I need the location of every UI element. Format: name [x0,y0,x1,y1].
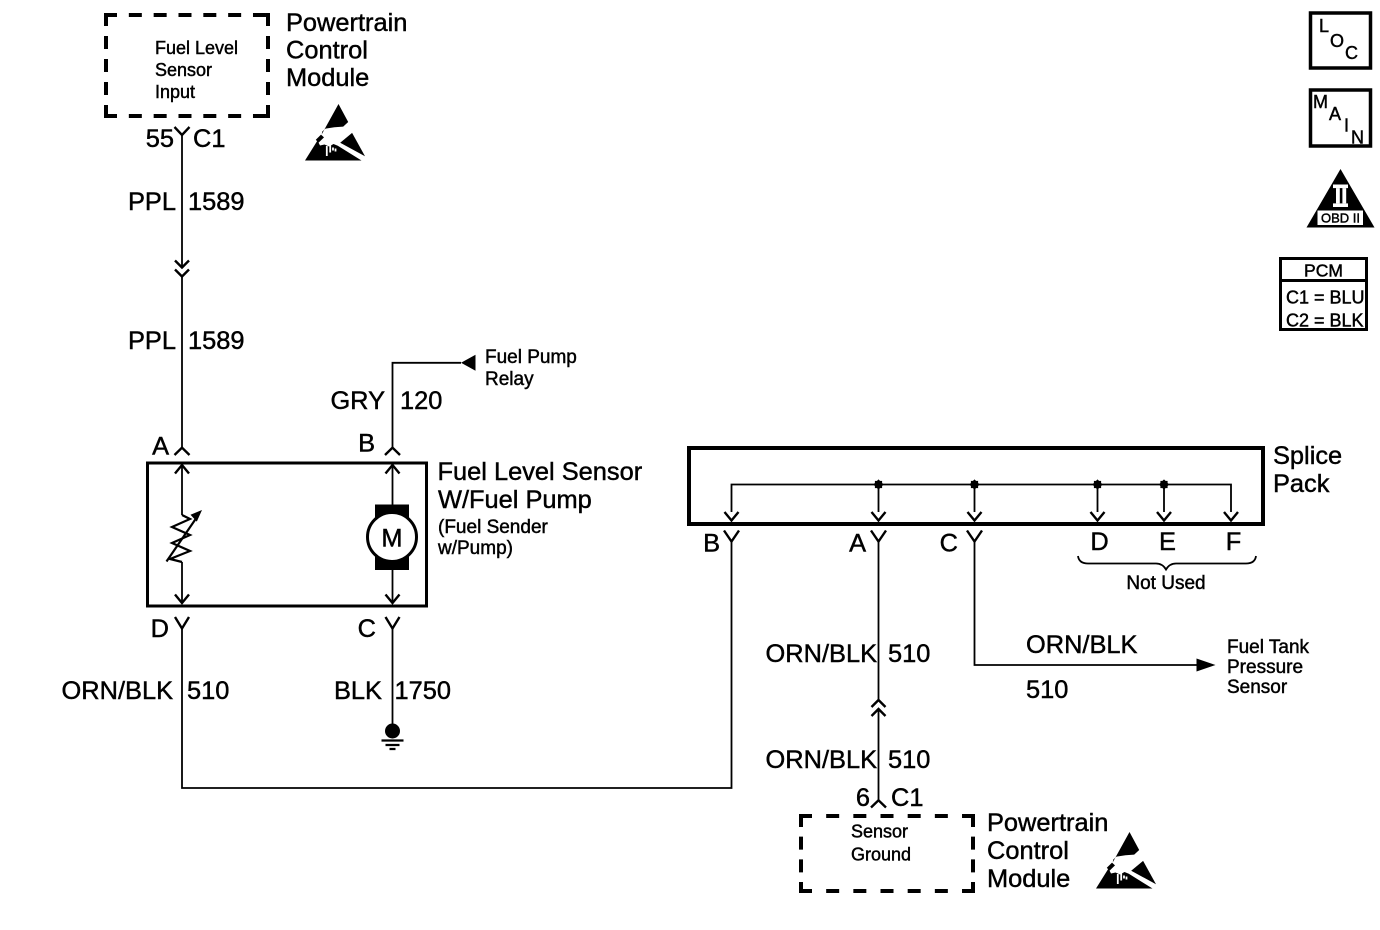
svg-text:B: B [703,530,720,558]
label: Not Used [1126,573,1205,594]
bus terminal arrow D [1091,512,1105,521]
inline break symbol on PPL wire [175,261,189,277]
internal arrow up at pin A [175,465,189,515]
svg-text:D: D [151,615,169,643]
value label ORN/BLK 510 (A lower) [766,746,931,774]
connector symbol splice A [871,531,886,542]
svg-text:ORN/BLK: ORN/BLK [766,640,878,668]
arrow to Fuel Tank Pressure Sensor [1197,659,1216,672]
connector symbol at pin A [175,448,190,455]
svg-text:Fuel Level Sensor: Fuel Level Sensor [438,458,643,486]
svg-text:D: D [1090,528,1108,556]
internal arrow down to pin D [175,562,189,603]
label: Fuel Level Sensor W/Fuel Pump [437,458,643,559]
wire ORN/BLK 510 splice C to fuel tank pressure sensor [975,542,1198,666]
value label PPL 1589 (lower) [128,327,244,355]
svg-text:BLK: BLK [334,677,382,705]
svg-text:I: I [1344,116,1349,136]
svg-text:F: F [1226,528,1242,556]
svg-text:Module: Module [286,64,369,92]
svg-text:1589: 1589 [188,188,244,216]
value label ORN/BLK (C drop) [1026,631,1138,659]
svg-text:55: 55 [146,125,174,153]
wire ORN/BLK 510 from D to splice pack B [182,542,732,789]
ground symbol G401 [382,724,404,750]
junction at splice E [1159,479,1169,489]
svg-text:Pressure: Pressure [1227,657,1303,678]
svg-text:C: C [940,530,958,558]
node C label [358,615,376,643]
fuel pump motor M1 [368,505,417,571]
svg-text:PCM: PCM [1304,261,1343,281]
connector symbol at PCM 55 C1 [175,127,190,135]
MAIN takeout symbol [1311,90,1371,148]
splice pin E label [1159,528,1176,556]
value label PPL 1589 (upper) [128,188,244,216]
svg-text:510: 510 [187,677,229,705]
svg-text:M: M [381,525,402,553]
svg-text:Control: Control [987,837,1069,865]
node D label [151,615,169,643]
connector symbol at pin D [175,617,189,629]
svg-text:Sensor: Sensor [1227,677,1288,698]
svg-text:C: C [1345,43,1358,63]
node A label [152,433,169,461]
Splice Pack box [689,448,1263,524]
svg-text:PPL: PPL [128,188,176,216]
svg-text:Control: Control [286,37,368,65]
wire PPL 1589 lower segment [181,277,183,448]
bus terminal arrow F [1224,512,1238,521]
internal arrow up at pin B [386,465,400,505]
svg-text:Powertrain: Powertrain [286,9,407,37]
value label BLK 1750 [334,677,451,705]
junction at splice D [1092,479,1102,489]
connector symbol at pin B [385,448,400,455]
svg-text:6: 6 [856,784,870,812]
bus terminal arrow C [968,512,982,521]
label: Splice Pack [1273,442,1342,498]
svg-text:Not Used: Not Used [1126,573,1205,594]
svg-text:M: M [1313,92,1328,112]
label: Fuel Tank Pressure Sensor [1227,637,1310,698]
svg-text:A: A [849,530,866,558]
svg-text:E: E [1159,528,1176,556]
svg-text:OBD II: OBD II [1321,211,1360,226]
ESD symbol (top) [305,104,365,161]
inline break symbol on A wire [872,700,886,716]
OBD II symbol [1307,169,1375,228]
svg-text:Module: Module [987,865,1070,893]
svg-text:Relay: Relay [485,369,534,390]
value label ORN/BLK 510 (left) [62,677,230,705]
svg-text:C2 = BLK: C2 = BLK [1286,311,1364,331]
svg-text:N: N [1351,128,1364,148]
wire BLK 1750 from C to ground [392,629,394,725]
connector symbol at pin C [386,617,400,629]
bus terminal arrow A [872,512,886,521]
PCM connector block: Fuel Level Sensor Input (dashed box) [104,13,270,118]
splice pin D label [1090,528,1108,556]
svg-text:C: C [358,615,376,643]
label: Powertrain Control Module (bottom) [987,809,1108,893]
variable resistor (fuel level sender) [167,510,203,562]
connector symbol splice C [967,531,982,542]
connector symbol at PCM 6 C1 [871,800,886,807]
internal arrow down to pin C [386,570,400,603]
junction at splice A [873,479,883,489]
svg-text:ORN/BLK: ORN/BLK [62,677,174,705]
ESD symbol (bottom) [1096,832,1156,889]
svg-text:Fuel Tank: Fuel Tank [1227,637,1310,658]
svg-text:Powertrain: Powertrain [987,809,1108,837]
value label 510 (C drop) [1026,676,1068,704]
svg-text:1750: 1750 [395,677,451,705]
svg-text:Pack: Pack [1273,470,1330,498]
svg-text:Sensor: Sensor [851,822,908,842]
svg-text:Fuel Level: Fuel Level [155,38,238,58]
wire GRY 120 to fuel pump relay [393,363,462,447]
not-used brace [1078,556,1256,570]
value label GRY 120 [330,387,442,415]
pin 55 / connector C1 labels [146,125,226,153]
svg-text:ORN/BLK: ORN/BLK [1026,631,1138,659]
svg-text:120: 120 [400,387,442,415]
svg-text:Fuel Pump: Fuel Pump [485,347,577,368]
wire PPL 1589 upper segment [181,135,183,267]
PCM connector block: Sensor Ground (dashed box) [799,814,975,893]
svg-text:C1: C1 [891,784,923,812]
svg-text:W/Fuel Pump: W/Fuel Pump [438,486,592,514]
LOC takeout symbol [1311,13,1371,68]
wire ORN/BLK 510 (A lower) [878,709,880,800]
label: Fuel Pump Relay [485,347,577,390]
wire ORN/BLK 510 splice A to PCM (upper) [878,542,880,701]
svg-text:C1 = BLU: C1 = BLU [1286,288,1365,308]
svg-text:w/Pump): w/Pump) [437,538,513,559]
label: Powertrain Control Module (top) [286,9,407,92]
svg-text:O: O [1330,31,1344,51]
svg-text:A: A [1329,104,1341,124]
pin 6 / connector C1 labels [856,784,924,812]
svg-text:510: 510 [1026,676,1068,704]
bus terminal arrow B [725,512,739,521]
svg-text:510: 510 [888,746,930,774]
node B label [358,430,375,458]
splice pin A label [849,530,866,558]
Fuel Level Sensor W/Fuel Pump box [148,463,427,606]
svg-text:B: B [358,430,375,458]
svg-text:A: A [152,433,169,461]
svg-text:(Fuel Sender: (Fuel Sender [438,517,549,538]
connector symbol splice B [724,531,739,542]
svg-text:PPL: PPL [128,327,176,355]
svg-text:GRY: GRY [330,387,385,415]
svg-text:Splice: Splice [1273,442,1342,470]
svg-text:L: L [1319,16,1329,36]
bus terminal arrow E [1157,512,1171,521]
svg-text:1589: 1589 [188,327,244,355]
splice bus wire [732,485,1232,513]
svg-text:Sensor: Sensor [155,60,212,80]
svg-text:510: 510 [888,640,930,668]
splice pin F label [1226,528,1242,556]
off-page arrow to Fuel Pump Relay [461,355,476,371]
svg-text:Ground: Ground [851,845,911,865]
splice pin C label [940,530,958,558]
junction at splice C [969,479,979,489]
svg-text:ORN/BLK: ORN/BLK [766,746,878,774]
svg-text:C1: C1 [193,125,225,153]
splice pin B label [703,530,720,558]
PCM connector color legend [1281,259,1367,331]
value label ORN/BLK 510 (A upper) [766,640,931,668]
svg-text:Input: Input [155,82,195,102]
